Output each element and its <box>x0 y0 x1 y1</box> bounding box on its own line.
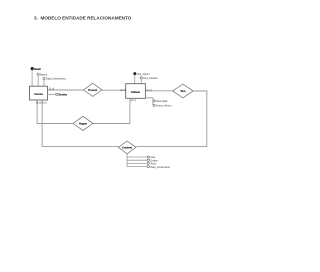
svg-text:Cod_Usuario: Cod_Usuario <box>143 77 158 80</box>
relationship Tem <box>173 84 194 98</box>
wire Segue-right <box>93 98 130 123</box>
svg-text:Contém: Contém <box>122 145 133 149</box>
attribute Ordem of Contem <box>127 159 147 161</box>
svg-text:Senha: Senha <box>59 92 68 96</box>
wire Contem-left <box>42 100 118 147</box>
svg-text:Segue: Segue <box>79 121 88 125</box>
attribute Banco of Conta <box>37 75 39 86</box>
svg-text:Data_Nascimento: Data_Nascimento <box>46 78 66 81</box>
wire Segue-left <box>37 100 73 124</box>
svg-text:3. MODELO ENTIDADE RELACIONAM: 3. MODELO ENTIDADE RELACIONAMENTO <box>34 16 132 21</box>
wire Possui-left <box>48 89 84 91</box>
attribute Texto of Contem <box>127 162 147 164</box>
svg-text:[0,n] [0,n]: [0,n] [0,n] <box>36 101 47 104</box>
svg-text:Descrição: Descrição <box>156 100 168 103</box>
attribute Nome_Album of Album <box>153 104 155 106</box>
svg-text:Tem: Tem <box>180 89 186 93</box>
svg-text:[1,1]: [1,1] <box>121 89 126 92</box>
svg-text:Data_Comentario: Data_Comentario <box>150 166 170 169</box>
attribute Descricao of Album <box>145 98 153 106</box>
svg-text:Banco: Banco <box>40 73 48 76</box>
relationship Segue <box>73 116 93 130</box>
entity Album <box>126 84 146 99</box>
attribute Cod_Album (key) of Album <box>134 75 136 84</box>
svg-text:[0,n]: [0,n] <box>131 99 136 102</box>
svg-text:[1,n]: [1,n] <box>49 88 54 91</box>
wire Possui-right <box>102 89 126 91</box>
attribute Foto of Contem <box>127 156 147 158</box>
svg-text:Possui: Possui <box>88 88 97 92</box>
svg-text:Album: Album <box>131 90 141 94</box>
relationship Contem <box>118 141 136 154</box>
svg-text:Email: Email <box>34 68 41 71</box>
wire Tem-left <box>145 90 172 92</box>
attribute Data_Nascimento of Conta <box>43 80 45 87</box>
svg-text:Conta: Conta <box>34 92 43 96</box>
svg-text:Cod_Album: Cod_Album <box>137 73 150 76</box>
svg-text:[1,n]: [1,n] <box>147 89 152 92</box>
attribute Senha of Conta <box>48 93 56 95</box>
attribute Email (key) of Conta <box>31 70 33 86</box>
attribute Cod_Usuario of Album <box>140 79 142 84</box>
relationship Possui <box>84 83 103 96</box>
attribute Data_Comentario of Contem <box>127 166 147 168</box>
wire Tem-right <box>136 91 207 147</box>
wire Contem attribute stem <box>126 154 128 167</box>
svg-text:Nome_Album: Nome_Album <box>156 105 171 108</box>
entity Conta <box>30 86 48 100</box>
